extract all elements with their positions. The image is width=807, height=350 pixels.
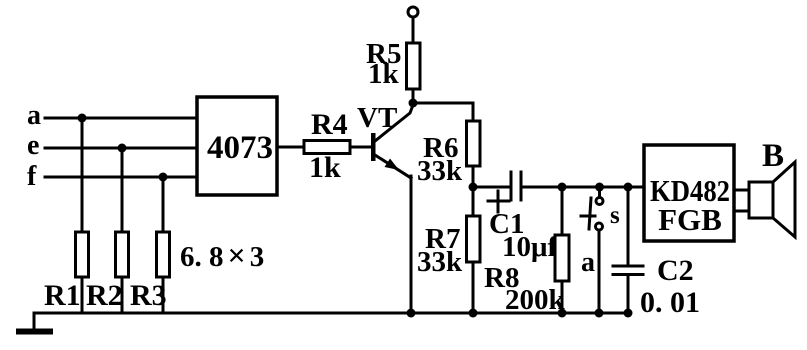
node f junction [159,173,168,182]
wire e to R2 [121,148,124,232]
wire R4 to base [350,146,371,149]
svg-text:R1: R1 [44,279,81,312]
node a junction [78,114,87,123]
wire R6 to node [472,166,475,216]
svg-text:a: a [581,247,595,278]
svg-text:33k: 33k [417,155,463,187]
wire R5 to collector node [412,89,415,103]
supply terminal [408,7,418,17]
IC U1 4073 [197,97,277,195]
transistor VT collector [375,105,413,141]
svg-text:s: s [610,202,620,229]
wire C1 to KD482 [521,186,644,189]
resistor R1 [76,232,89,277]
svg-text:R3: R3 [130,279,167,312]
svg-text:f: f [27,161,37,192]
resistor R4 [304,141,350,154]
svg-text:0. 01: 0. 01 [640,286,700,319]
wire node to switch [598,187,601,197]
svg-text:C2: C2 [657,254,694,287]
wire R2 to ground rail [121,277,124,313]
wire node to C1 [473,186,511,189]
wire rail to ground [33,313,36,330]
C1 polarity plus [488,200,509,203]
wire KD482 to speaker top [734,189,749,192]
node C2 junction [624,183,633,192]
svg-text:e: e [27,130,39,161]
svg-text:a: a [27,100,41,131]
ground [19,329,50,335]
ground rail [34,312,628,315]
wire switch to ground rail [598,230,601,313]
node switch junction [595,183,604,192]
resistor R5 [407,43,421,89]
svg-text:R2: R2 [86,279,123,312]
capacitor C1 [510,172,513,200]
wire input f [45,176,197,179]
node e junction [118,144,127,153]
node R6/R7/C1 junction [469,183,478,192]
IC U2 KD482 FGB [644,145,734,241]
switch S actuator tick [581,215,595,218]
wire R7 to ground rail [472,262,475,313]
node R8 junction [558,183,567,192]
wire a to R1 [81,118,84,232]
wire KD482 to speaker bottom [734,210,749,213]
wire R1 to ground rail [81,277,84,313]
svg-text:1k: 1k [309,151,341,184]
resistor R2 [116,232,129,277]
speaker B horn [773,162,795,237]
svg-text:FGB: FGB [658,202,722,237]
node R7-rail junction [469,309,478,318]
node R8-rail junction [558,309,567,318]
svg-text:200k: 200k [505,284,566,316]
svg-text:R4: R4 [311,108,348,141]
svg-text:1k: 1k [368,58,400,90]
wire 4073 output to R4 [277,146,304,149]
wire collector node to R6 [413,103,473,121]
wire input e [45,147,197,150]
transistor VT base bar [371,133,376,161]
svg-text:B: B [762,138,784,174]
switch S lever [589,198,591,229]
switch S contact bottom [596,223,603,230]
wire R8 to ground rail [561,281,564,313]
transistor VT emitter arrow [385,159,400,171]
wire C2 to ground rail [627,275,630,314]
svg-text:10μf: 10μf [502,231,557,263]
wire emitter to ground rail [410,176,413,313]
wire R3 to ground rail [162,277,165,313]
switch S contact top [596,198,603,205]
resistor R8 [555,235,569,281]
speaker B body [749,182,773,218]
wire f to R3 [162,177,165,232]
wire input a [45,117,197,120]
node collector junction [409,99,418,108]
resistor R7 [467,216,481,262]
resistor R3 [157,232,170,277]
svg-text:4073: 4073 [207,130,273,166]
svg-text:6. 8×3: 6. 8×3 [180,237,264,273]
wire terminal to R5 [412,17,415,43]
node emitter-rail junction [407,309,416,318]
capacitor C2 [613,265,643,268]
svg-text:33k: 33k [417,246,463,278]
node C2-rail junction [624,309,633,318]
wire node to R8 [561,187,564,235]
wire node to C2 [627,187,630,266]
node switch-rail junction [595,309,604,318]
resistor R6 [467,121,481,166]
transistor VT emitter [375,155,411,178]
